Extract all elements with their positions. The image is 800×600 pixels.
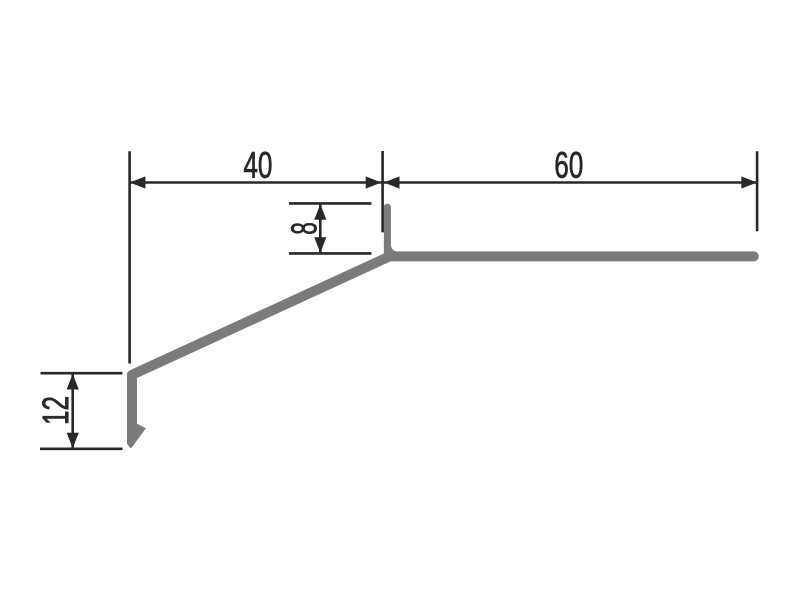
arrowhead top of 8 — [314, 204, 326, 220]
arrowhead right of 40 — [366, 176, 382, 188]
extension line left (x=130) — [128, 151, 131, 363]
drip edge barb (kick-out tip) — [127, 413, 146, 448]
label 12 — [42, 397, 68, 423]
label 60 — [556, 152, 583, 178]
arrowhead right of 60 — [741, 176, 757, 188]
extension line bottom of 8 — [289, 252, 372, 255]
arrowhead bottom of 12 — [67, 433, 79, 449]
arrowhead top of 12 — [67, 374, 79, 390]
label 40 — [244, 152, 271, 178]
extension line bottom of 12 — [40, 447, 123, 450]
extension line right (x=757) — [756, 151, 759, 231]
dimension line 8 — [319, 204, 322, 253]
arrowhead left of 40 — [130, 176, 146, 188]
extension line middle (x=383) — [381, 151, 384, 232]
profile stub (8 mm upstand at junction) — [384, 207, 391, 256]
dimension line 40/60 — [130, 181, 758, 184]
fillet between stub and top flange — [391, 245, 399, 252]
profile main outline (horizontal top flange, angled web, vertical drip leg) — [132, 256, 754, 420]
label 8 — [291, 223, 316, 234]
dimension line 12 — [71, 374, 74, 449]
arrowhead left of 60 — [384, 176, 400, 188]
extension line top of 8 — [289, 202, 372, 205]
arrowhead bottom of 8 — [314, 237, 326, 253]
extension line top of 12 — [41, 372, 123, 375]
